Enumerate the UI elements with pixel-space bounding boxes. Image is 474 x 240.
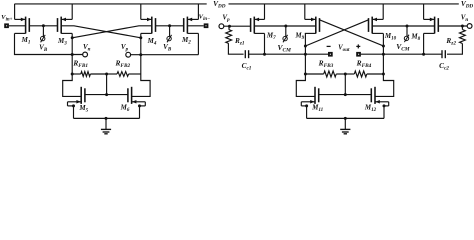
wire M1 drain down bbox=[15, 33, 83, 54]
port Vout- bbox=[328, 52, 333, 57]
transistor M6 bbox=[128, 87, 145, 119]
label RFB1 bbox=[72, 59, 88, 70]
label Cc1 bbox=[242, 61, 252, 72]
power VDD label right bbox=[461, 0, 474, 9]
label VB left bbox=[39, 43, 48, 53]
wire Vout- wire bbox=[305, 53, 328, 55]
wire RFB mid down bbox=[106, 74, 108, 95]
wire M3 drain down bbox=[71, 33, 73, 74]
clock phi3 bbox=[283, 35, 288, 42]
transistor M2 bbox=[184, 4, 199, 34]
wire M10-M8 common bbox=[372, 25, 434, 27]
node M3 drain X junction bbox=[71, 36, 74, 39]
port Vin- bbox=[204, 23, 209, 28]
clock phi4 bbox=[404, 35, 409, 42]
label VCM left bbox=[277, 43, 291, 54]
label M5 bbox=[78, 104, 88, 114]
resistor RFB1 bbox=[72, 72, 106, 77]
node phi3 junction bbox=[284, 25, 287, 28]
clock phi1 bbox=[41, 35, 46, 42]
clock phi2 bbox=[167, 35, 172, 42]
wire M6 gate path bbox=[132, 74, 151, 96]
wire Vout+ wire bbox=[361, 53, 384, 55]
wire phi3 tap bbox=[285, 26, 287, 36]
node Vout- junction bbox=[304, 53, 307, 56]
transistor M3 bbox=[58, 4, 73, 34]
label M11 bbox=[311, 103, 323, 113]
label Vin- bbox=[199, 14, 210, 23]
node RFB3 left junction bbox=[304, 73, 307, 76]
wire M5 gate path bbox=[63, 74, 81, 96]
label Vout bbox=[338, 45, 350, 54]
transistor M1 bbox=[15, 4, 30, 34]
label Vin+ bbox=[1, 14, 12, 23]
node M5-M6 mid junction bbox=[105, 93, 108, 96]
port Vin+ bbox=[4, 23, 9, 28]
label VCM right bbox=[396, 42, 410, 53]
node Vp input bbox=[219, 24, 224, 29]
ground left bbox=[101, 118, 111, 133]
transistor M5 bbox=[68, 87, 85, 119]
label M12 bbox=[364, 103, 377, 113]
label Vn input bbox=[461, 14, 469, 24]
label RFB3 bbox=[318, 59, 334, 70]
label Rz1 bbox=[234, 36, 245, 47]
wire cross a bbox=[61, 26, 141, 38]
node M9 X junction bbox=[304, 45, 307, 48]
resistor Rz2 bbox=[447, 26, 465, 54]
wire M10 drain down bbox=[382, 33, 384, 74]
node RFB1 left junction bbox=[71, 73, 74, 76]
wire ground rail right bbox=[307, 117, 384, 119]
wire cross c bbox=[320, 20, 384, 46]
node Cc2 junction bbox=[422, 53, 425, 56]
wire RFB34 mid down bbox=[344, 74, 346, 95]
label plus bbox=[356, 44, 360, 48]
resistor RFB4 bbox=[345, 71, 383, 77]
node M4 drain X junction bbox=[139, 36, 142, 39]
label M9 bbox=[294, 32, 304, 42]
wire M4-M2 common bbox=[156, 25, 184, 27]
node M10 X junction bbox=[382, 45, 385, 48]
transistor M8 bbox=[424, 4, 439, 34]
transistor M9 bbox=[305, 4, 320, 34]
capacitor Cc2 bbox=[383, 50, 445, 58]
label Vp bbox=[121, 43, 129, 53]
node Vn bbox=[83, 52, 88, 57]
wire phi1 tap bbox=[42, 26, 44, 37]
label M10 bbox=[384, 32, 397, 42]
node Rz2 junction bbox=[461, 25, 464, 28]
wire cross d bbox=[305, 20, 368, 46]
node ground junction right bbox=[344, 117, 347, 120]
label M2 bbox=[181, 36, 191, 46]
label RFB4 bbox=[356, 59, 372, 70]
wire phi4 tap bbox=[406, 26, 408, 36]
label VB right bbox=[163, 43, 172, 53]
wire cross b bbox=[72, 26, 152, 38]
node RFB4 right junction bbox=[382, 73, 385, 76]
node Vp bbox=[126, 52, 131, 57]
wire VDD rail left bbox=[15, 3, 207, 5]
label M1 bbox=[21, 36, 31, 46]
label M7 bbox=[266, 31, 276, 41]
node Vout+ junction bbox=[382, 53, 385, 56]
ground right bbox=[340, 118, 350, 133]
label Vp input bbox=[222, 13, 230, 23]
wire M7-M9 common bbox=[254, 25, 315, 27]
wire VDD rail right bbox=[229, 3, 459, 5]
wire M1-M3 common bbox=[29, 25, 57, 27]
node Vn input bbox=[467, 24, 472, 29]
wire M8 to Vn bbox=[438, 25, 467, 27]
wire M11 gate path bbox=[296, 74, 315, 96]
label M3 bbox=[57, 37, 67, 47]
transistor M7 bbox=[251, 4, 265, 34]
transistor M4 bbox=[141, 4, 156, 34]
node Vn junction bbox=[71, 53, 74, 56]
node M11-M12 mid junction bbox=[344, 93, 347, 96]
node Rz1 junction bbox=[228, 25, 231, 28]
wire Vp to M7 bbox=[224, 25, 251, 27]
node RFB34 mid junction bbox=[344, 73, 347, 76]
resistor Rz1 bbox=[226, 26, 244, 54]
label M8 bbox=[410, 33, 420, 43]
transistor M12 bbox=[371, 87, 388, 119]
resistor RFB3 bbox=[305, 71, 345, 77]
node phi2 junction bbox=[168, 24, 171, 27]
wire Vin- to M2 gate bbox=[187, 25, 203, 27]
power VDD label left bbox=[213, 0, 226, 9]
node Cc1 junction bbox=[263, 53, 266, 56]
wire M4 drain down bbox=[140, 33, 142, 74]
transistor M11 bbox=[301, 87, 318, 119]
port Vout+ bbox=[356, 52, 361, 57]
wire M9 out down bbox=[304, 54, 306, 74]
wire M7 drain down bbox=[264, 33, 266, 54]
node Vp junction bbox=[139, 53, 142, 56]
label minus bbox=[327, 45, 331, 47]
label RFB2 bbox=[114, 59, 130, 70]
label M6 bbox=[120, 103, 130, 113]
wire M11-M12 common bbox=[319, 94, 372, 96]
node RFB mid junction bbox=[105, 73, 108, 76]
label M4 bbox=[147, 37, 157, 47]
capacitor Cc1 bbox=[245, 50, 305, 58]
node ground junction left bbox=[105, 117, 108, 120]
wire Vin+ to M1 gate bbox=[9, 25, 26, 27]
label Cc2 bbox=[439, 61, 449, 72]
wire M2 drain down bbox=[197, 33, 199, 54]
wire phi2 tap bbox=[169, 26, 171, 37]
node phi4 junction bbox=[406, 25, 409, 28]
wire M5-M6 common bbox=[85, 94, 128, 96]
wire M9 drain down bbox=[304, 33, 306, 54]
resistor RFB2 bbox=[107, 72, 141, 77]
wire M8 drain down bbox=[423, 33, 425, 54]
label Rz2 bbox=[445, 36, 456, 47]
transistor M10 bbox=[369, 4, 384, 34]
node phi1 junction bbox=[42, 24, 45, 27]
wire M12 gate path bbox=[375, 74, 394, 96]
wire ground rail left bbox=[74, 117, 140, 119]
wire Vp segment bbox=[131, 54, 199, 56]
label Vn bbox=[83, 43, 91, 53]
